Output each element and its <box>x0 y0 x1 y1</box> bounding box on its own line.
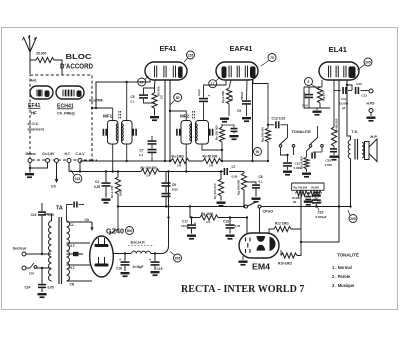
svg-text:MF2: MF2 <box>180 114 190 119</box>
svg-text:500: 500 <box>127 229 133 233</box>
resistor Ry-50.000 <box>203 155 222 168</box>
svg-text:0,1: 0,1 <box>131 100 136 104</box>
resistor R2-300 vertical <box>152 86 164 115</box>
capacitor C8 0.1 <box>244 175 263 197</box>
capacitor C17 100uF <box>181 218 196 234</box>
svg-text:C15: C15 <box>157 267 163 271</box>
svg-text:205: 205 <box>365 60 371 64</box>
label MF1 <box>103 114 113 119</box>
resistor Ru-1M ohm <box>171 155 189 168</box>
svg-text:205: 205 <box>175 256 181 260</box>
svg-text:R10: R10 <box>317 200 322 204</box>
svg-text:+: + <box>194 222 196 226</box>
svg-text:0,1: 0,1 <box>259 180 264 184</box>
wire bus to GZ40 <box>109 207 118 235</box>
switch CPuO <box>245 202 274 214</box>
MF1 secondary tank <box>122 121 137 145</box>
svg-text:C19: C19 <box>223 220 229 224</box>
svg-text:0,1: 0,1 <box>139 153 144 157</box>
svg-text:CL.: CL. <box>70 223 75 227</box>
svg-text:D'ACCORD: D'ACCORD <box>60 64 93 71</box>
label EL41 <box>329 45 348 54</box>
EL41 cathode loop <box>304 80 330 108</box>
svg-text:+: + <box>149 258 151 262</box>
capacitor C14 50uF <box>302 87 313 108</box>
MF2 primary tank <box>176 121 191 145</box>
svg-text:R10-1MΩ: R10-1MΩ <box>278 262 292 266</box>
transformer TS core <box>355 139 358 160</box>
resistor R10 divider <box>307 191 322 204</box>
antenna <box>23 35 37 74</box>
svg-text:Rg 100.000: Rg 100.000 <box>237 180 241 195</box>
wire MF1 secondary top to EF41 grid <box>126 81 128 121</box>
legend 1 Normal <box>332 265 352 270</box>
svg-text:R9: R9 <box>293 200 297 204</box>
svg-text:C.A.V: C.A.V <box>76 152 86 156</box>
TA tap CN <box>67 281 93 287</box>
TA primary winding <box>44 218 52 281</box>
terminal Ch2 <box>55 159 59 163</box>
svg-text:GZ40: GZ40 <box>106 229 124 236</box>
svg-text:TONALITÉ: TONALITÉ <box>337 253 359 258</box>
ground EM4 <box>239 256 248 266</box>
wire MF1 primary bottom <box>112 144 114 173</box>
svg-text:Ch: Ch <box>51 185 56 189</box>
resistor R10 1M <box>278 250 297 266</box>
ground C17 <box>187 235 196 240</box>
wire EL41 plate to TS <box>346 80 352 140</box>
capacitor C6 0.05 double <box>162 172 179 207</box>
wire MF2 primary bottom <box>185 144 187 173</box>
pin callout 205 EL41 <box>357 58 372 70</box>
svg-text:Ch: Ch <box>85 218 90 222</box>
svg-text:H.PS: H.PS <box>367 102 376 106</box>
label T.S. <box>352 129 359 134</box>
wire AVC bus H1 <box>80 160 269 162</box>
wire bloc to EF41 grid <box>96 80 150 108</box>
label EF41 <box>160 44 177 53</box>
svg-text:Masse: Masse <box>26 152 36 156</box>
svg-text:50.000: 50.000 <box>292 196 300 200</box>
resistor Rg-1M ohm <box>200 212 218 224</box>
svg-text:C23: C23 <box>31 213 37 217</box>
svg-text:1/4: 1/4 <box>206 220 211 224</box>
capacitor C7 0.1 stack <box>139 136 157 161</box>
svg-text:EF41: EF41 <box>160 44 177 53</box>
TA tap Ch arrow <box>85 218 94 231</box>
resistor Rk EL41 <box>317 87 325 108</box>
capacitor divider <box>304 194 313 206</box>
svg-text:C14: C14 <box>302 104 308 108</box>
svg-text:C17: C17 <box>182 220 188 224</box>
voltage callout 500 <box>126 227 134 235</box>
wire EM4 loop up <box>300 190 302 229</box>
tube EM4 <box>239 233 279 258</box>
svg-text:C4: C4 <box>95 180 99 184</box>
svg-text:10µF: 10µF <box>197 89 201 96</box>
BLOC D'ACCORD title <box>60 54 93 71</box>
svg-text:1MΩ: 1MΩ <box>119 189 123 196</box>
svg-text:Rg-150: Rg-150 <box>322 91 326 101</box>
capacitor C13 0.05 <box>355 82 369 98</box>
wire EF41 plate down <box>164 80 166 162</box>
tube ECH41 (converter) <box>56 86 84 99</box>
svg-text:H.P: H.P <box>371 134 378 139</box>
label GZ40 <box>106 229 124 236</box>
wire MF2 primary top <box>169 110 186 121</box>
svg-text:µF: µF <box>342 106 346 110</box>
ground C17b <box>151 271 160 276</box>
node Ant. <box>31 79 38 83</box>
svg-text:205: 205 <box>350 217 356 221</box>
capacitor C9 350pF <box>237 80 251 116</box>
wire EM4 target tap <box>300 207 339 244</box>
speaker H.P <box>362 139 377 162</box>
svg-text:Ch. FREQ: Ch. FREQ <box>57 112 75 116</box>
svg-text:R12 1MΩ: R12 1MΩ <box>275 222 289 226</box>
label EAF41 <box>230 44 253 53</box>
divider box R9 R10 <box>292 183 324 190</box>
label ECH41 Ch.FREQ <box>57 104 75 116</box>
resistor R9 divider <box>292 191 308 204</box>
transformer TS primary <box>348 140 350 158</box>
pin callout 17 EF41 <box>138 76 149 86</box>
voltage callout 205 at rectifier <box>170 252 182 263</box>
wire EL41 grid down <box>324 80 326 87</box>
svg-text:100µF: 100µF <box>181 224 190 228</box>
svg-text:CN: CN <box>70 283 75 287</box>
svg-text:17: 17 <box>140 80 144 84</box>
ground EL41 cathode <box>313 108 322 116</box>
voltage callout 205 B+ <box>348 210 357 223</box>
svg-text:0,05: 0,05 <box>172 188 178 192</box>
ground C19 <box>226 235 235 240</box>
capacitor MF2 sec bypass <box>222 125 238 134</box>
svg-text:Rg-1.000: Rg-1.000 <box>221 91 225 103</box>
svg-text:Secteur: Secteur <box>13 247 27 251</box>
svg-text:1/4: 1/4 <box>177 164 182 168</box>
pin callout 75 <box>261 54 276 67</box>
choke Exc HP winding <box>132 251 151 253</box>
label en O.C. seulement <box>28 122 45 132</box>
svg-text:1nl: 1nl <box>29 272 34 276</box>
svg-text:50µF: 50µF <box>303 92 307 99</box>
ground C24 <box>38 293 47 298</box>
svg-text:Rb 50.000: Rb 50.000 <box>300 156 304 169</box>
svg-text:+: + <box>119 258 121 262</box>
capacitor C11 15.000pF <box>334 87 352 110</box>
svg-text:0,25: 0,25 <box>94 185 100 189</box>
svg-text:0,05: 0,05 <box>48 286 54 290</box>
svg-text:1 . Normal: 1 . Normal <box>332 265 352 270</box>
svg-text:50.000: 50.000 <box>311 186 319 190</box>
svg-text:C8: C8 <box>259 175 263 179</box>
resistor Ry 500.000 vertical <box>213 170 224 200</box>
wire GZ40 cathode to choke <box>113 253 131 255</box>
svg-text:75: 75 <box>270 56 274 60</box>
svg-text:1/2: 1/2 <box>230 96 234 100</box>
svg-text:en O.C.: en O.C. <box>28 122 40 126</box>
svg-text:Exc.H.P.: Exc.H.P. <box>131 241 146 245</box>
wire bus H4 <box>167 207 248 219</box>
legend 2 Parole <box>332 274 351 279</box>
ground Rb <box>302 173 311 178</box>
TA core <box>59 217 62 284</box>
ground C16 <box>121 272 130 277</box>
terminal Masse <box>28 159 48 173</box>
wire bloc output to MF1 <box>91 107 113 109</box>
svg-text:H.T.: H.T. <box>70 244 76 248</box>
svg-text:5.000µF: 5.000µF <box>316 215 327 219</box>
svg-text:1/4: 1/4 <box>209 164 214 168</box>
svg-text:Ant.: Ant. <box>31 79 38 83</box>
svg-text:1/2: 1/2 <box>160 95 164 99</box>
svg-text:C6: C6 <box>172 183 176 187</box>
label EF41 HF <box>28 103 41 116</box>
label EM4 <box>252 262 270 272</box>
wire bus H3 <box>117 205 244 207</box>
wire EL41 screen down <box>338 80 340 208</box>
MF2 core <box>193 111 195 120</box>
svg-text:C22: C22 <box>326 159 332 163</box>
wire MF1 secondary bottom <box>126 144 128 162</box>
MF1 core <box>119 111 121 120</box>
resistor Ry 400.000 vertical <box>330 80 339 155</box>
svg-text:H.T.: H.T. <box>65 152 71 156</box>
svg-text:EAF41: EAF41 <box>230 44 253 53</box>
label Exc.H.P. <box>128 241 154 246</box>
svg-text:HF: HF <box>31 111 37 116</box>
title RECTA - INTER WORLD 7 <box>181 284 304 295</box>
svg-text:C11: C11 <box>341 97 347 101</box>
wire EM4 grid feeds <box>247 208 260 234</box>
ground Masse <box>25 173 34 178</box>
svg-text:1/4: 1/4 <box>146 174 151 178</box>
svg-text:MF1: MF1 <box>103 114 113 119</box>
label TONALITE <box>292 129 312 134</box>
svg-text:EM4: EM4 <box>252 262 270 272</box>
label MF2 <box>180 114 190 119</box>
EF41 cathode network C5/R2-300 <box>131 80 156 104</box>
ground C4 <box>102 199 111 204</box>
terminal secteur top <box>22 252 51 256</box>
svg-text:Ry-100.000: Ry-100.000 <box>215 125 219 140</box>
svg-text:C13: C13 <box>362 94 368 98</box>
wire choke to B+ rail <box>151 172 169 254</box>
svg-text:350pF: 350pF <box>240 91 244 100</box>
svg-text:C7: C7 <box>232 165 236 169</box>
svg-text:C16: C16 <box>116 267 122 271</box>
arrow Ch below terminal <box>51 163 58 189</box>
svg-text:C5: C5 <box>131 95 135 99</box>
voltage callout 50 <box>254 148 262 156</box>
bloc d'accord dashed box <box>30 75 97 160</box>
MF1 primary tank <box>103 121 118 145</box>
resistor Rb 50.000 tone <box>300 147 311 172</box>
capacitor C24 0.05 <box>25 268 54 292</box>
capacitor C22 1.500 <box>311 147 332 167</box>
wire B+ bus right <box>261 205 352 207</box>
svg-text:100: 100 <box>314 197 319 201</box>
label TA <box>56 206 63 212</box>
antenna resistor 25.000 label <box>36 52 46 56</box>
svg-text:215: 215 <box>75 177 81 181</box>
TA tap H.T. upper <box>67 243 91 248</box>
terminal C.A.V <box>78 159 82 172</box>
capacitor above TA <box>67 202 85 222</box>
svg-text:BLOC: BLOC <box>66 54 92 61</box>
ground C9 <box>242 117 251 122</box>
terminal H.PS <box>367 89 376 106</box>
svg-text:T.S.: T.S. <box>352 129 359 134</box>
svg-text:R2-300: R2-300 <box>157 86 161 96</box>
resistor Rg-100.000b vertical <box>215 124 225 162</box>
svg-text:EL41: EL41 <box>329 45 348 54</box>
svg-text:R2-1.000: R2-1.000 <box>110 185 114 198</box>
svg-text:Ry 400.000: Ry 400.000 <box>335 118 339 133</box>
svg-text:Ry 500.000: Ry 500.000 <box>213 183 217 199</box>
capacitor C20 5.000pF <box>312 192 327 219</box>
ground MF2 sec <box>230 135 239 140</box>
svg-text:5: 5 <box>308 80 310 84</box>
capacitor 10uF electrolytic <box>197 80 226 121</box>
svg-text:Rg 700.000: Rg 700.000 <box>294 186 308 190</box>
terminal H.T. <box>67 159 71 172</box>
label 2x16uF <box>133 265 144 269</box>
ground C8 <box>252 198 261 203</box>
wire EF41 screen down <box>169 80 171 162</box>
voltage callout 215 <box>71 170 82 183</box>
TA mid tap with fuse <box>67 252 84 256</box>
switch tone right <box>309 126 323 147</box>
tube EF41 <box>145 62 187 80</box>
svg-text:TONALITE: TONALITE <box>292 129 312 134</box>
capacitor C23 0.05 <box>31 203 54 254</box>
tube GZ40 <box>90 236 114 277</box>
svg-text:0,05: 0,05 <box>235 224 241 228</box>
label H.P <box>371 134 378 139</box>
svg-text:25.000: 25.000 <box>36 52 46 56</box>
resistor R12 1M <box>269 222 301 256</box>
terminal secteur bottom <box>22 266 30 270</box>
svg-text:C24: C24 <box>25 286 31 290</box>
svg-text:50: 50 <box>256 150 260 154</box>
pin callout 5 EL41 <box>305 78 320 91</box>
wire MF1 primary top <box>112 108 114 121</box>
node Hex/TMF label <box>89 99 103 103</box>
wire EAF41 diode down <box>252 80 254 161</box>
svg-text:2 . Parole: 2 . Parole <box>332 274 351 279</box>
resistor Rg 200.000 vertical <box>237 172 247 208</box>
fuse 1nl <box>29 263 51 276</box>
TA primary top lead <box>44 214 52 221</box>
capacitor C4 0.25 <box>94 172 111 198</box>
tube EL41 <box>319 62 359 80</box>
wire HT bus H2 <box>69 170 223 172</box>
capacitor C16 16uF <box>116 252 130 271</box>
svg-text:2×16µF: 2×16µF <box>133 265 144 269</box>
ground Rg-1.000 <box>220 118 229 123</box>
capacitor C7b series <box>224 165 244 179</box>
svg-text:0,05: 0,05 <box>232 175 238 179</box>
wire TS bottom <box>350 158 352 206</box>
tube EF41 HF (tuner) <box>30 86 53 99</box>
ground Ry400k <box>330 156 339 161</box>
resistor Rg-100.000 detector <box>253 80 271 161</box>
TA tap CL <box>67 222 93 227</box>
svg-text:C7: C7 <box>140 149 144 153</box>
ground H.PS <box>367 117 376 122</box>
svg-text:C20: C20 <box>318 211 324 215</box>
MF2 secondary tank <box>196 121 214 145</box>
ground Ry500k <box>217 202 226 207</box>
svg-text:CPuO: CPuO <box>263 210 274 214</box>
svg-text:3 . Musique: 3 . Musique <box>332 283 355 288</box>
svg-text:C12 0,02: C12 0,02 <box>272 117 286 121</box>
capacitor C19 0.05 <box>223 218 241 234</box>
switch tone left <box>279 138 295 148</box>
svg-text:C9: C9 <box>237 109 241 113</box>
TA tap H.T. lower <box>67 265 91 270</box>
svg-text:Rg-100.000: Rg-100.000 <box>261 127 265 142</box>
svg-text:0,05: 0,05 <box>356 82 362 86</box>
ground C12t <box>283 171 292 176</box>
terminal Ch1 <box>46 159 50 163</box>
tube EAF41 <box>216 62 258 80</box>
capacitor C17b 16uF <box>149 252 163 271</box>
resistor Ry 100.000 <box>141 166 160 178</box>
label Secteur <box>13 247 27 251</box>
TA secondary winding <box>67 221 70 281</box>
wire MF2 secondary bottom <box>202 144 222 150</box>
svg-text:218: 218 <box>188 53 194 57</box>
capacitor C12 0.02 <box>268 117 288 138</box>
legend 3 Musique <box>332 283 355 288</box>
pin callout 17 EAF41 <box>209 77 220 88</box>
svg-text:1.500: 1.500 <box>325 163 333 167</box>
terminal H.PS 2 <box>369 109 373 117</box>
svg-text:H.T.: H.T. <box>70 266 76 270</box>
svg-text:TA: TA <box>56 206 63 212</box>
pin callout 80 EF41 <box>171 94 182 105</box>
capacitor C12t 5.000 <box>281 147 302 170</box>
ground R2-300 <box>150 116 159 121</box>
svg-text:RECTA - INTER WORLD 7: RECTA - INTER WORLD 7 <box>181 284 304 295</box>
svg-text:+: + <box>208 94 210 98</box>
resistor Rg-1.000 vertical <box>221 80 234 116</box>
antenna series resistor <box>30 57 62 75</box>
terminal labels Masse Ch.0,9V H.T. C.A.V <box>26 152 86 156</box>
svg-text:seulement: seulement <box>28 128 45 132</box>
svg-text:80: 80 <box>176 96 180 100</box>
TA primary bottom lead <box>44 281 52 284</box>
legend TONALITE <box>337 253 359 258</box>
svg-text:Ch.0,9V: Ch.0,9V <box>42 152 55 156</box>
resistor R2-1.000 vertical <box>110 172 123 207</box>
pin callout 218 <box>184 51 195 62</box>
